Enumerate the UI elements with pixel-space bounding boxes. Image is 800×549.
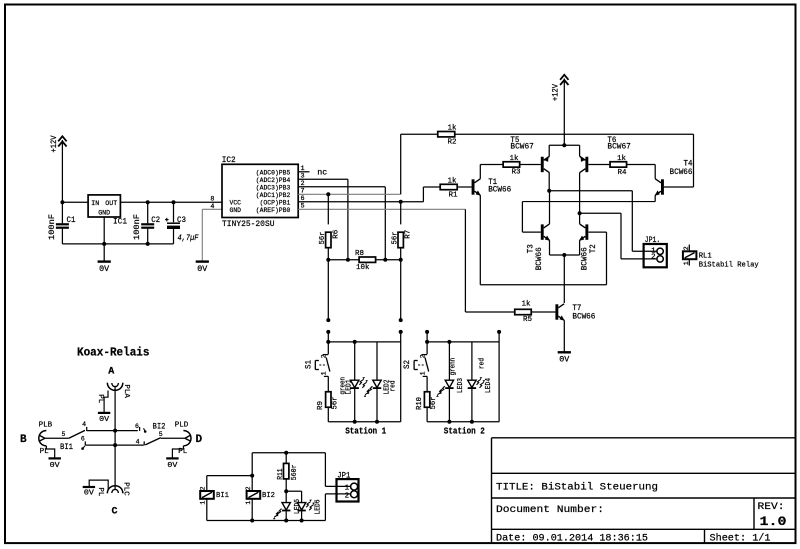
ground 0V at PLD (166, 457, 178, 459)
wire stub down from R6 node (327, 260, 329, 320)
junction center row1 (113, 429, 117, 433)
resistor R10 56r (426, 376, 428, 392)
switch BI2 blade (145, 438, 161, 445)
resistor R5 1k (515, 309, 532, 314)
junction bottom LED1 (353, 420, 357, 424)
wire row1 B-4 to center (87, 430, 115, 432)
capacitor C2 (147, 202, 149, 223)
ground 0V at PLA (98, 412, 110, 414)
wire T3 collector up (549, 191, 551, 224)
junction bottom LED5 (284, 519, 288, 523)
svg-text:1: 1 (245, 501, 252, 505)
svg-text:IC1: IC1 (113, 216, 127, 226)
transistor T4 BCW66 (661, 179, 664, 194)
wire +12V to IC1 IN (61, 140, 63, 202)
PLA shield to ground (104, 391, 108, 413)
wire rail to BI2 coil (251, 453, 253, 491)
wire center column to C (114, 431, 116, 446)
LED6 branch (286, 490, 301, 492)
svg-text:0V: 0V (50, 462, 61, 470)
junction LED column top (447, 340, 451, 344)
wire PB4 pin3 net (298, 178, 348, 180)
svg-text:2: 2 (245, 486, 252, 490)
svg-text:R7: R7 (405, 230, 413, 239)
ground 0V at PLB (49, 457, 61, 459)
wire coil top rail (252, 452, 325, 454)
svg-text:0V: 0V (99, 265, 109, 274)
resistor R6 56r (327, 194, 329, 224)
transistor T5 BCW67 (548, 145, 550, 156)
wire station bottom rail (427, 421, 499, 423)
svg-text:PL: PL (96, 394, 104, 403)
svg-text:100nF: 100nF (133, 214, 142, 240)
svg-text:R6: R6 (332, 229, 340, 238)
PLB shield to ground (46, 446, 54, 459)
svg-text:B: B (20, 434, 27, 446)
resistor R7 56r (400, 202, 402, 225)
BI1 terminal 4 tick (86, 427, 88, 431)
wire station2 right return riser (498, 332, 500, 422)
svg-text:grenn: grenn (450, 358, 458, 376)
svg-text:2: 2 (200, 486, 207, 490)
wire station bottom rail (328, 421, 400, 423)
svg-text:IC2: IC2 (222, 155, 236, 165)
svg-text:5: 5 (61, 431, 65, 438)
wire row2 center (85, 444, 115, 446)
svg-text:S2: S2 (403, 360, 412, 369)
wire B to BI1 blade (45, 437, 69, 439)
svg-text:C1: C1 (67, 216, 76, 225)
svg-text:nc: nc (317, 169, 327, 178)
junction bottom LED2 (375, 420, 379, 424)
svg-text:1.0: 1.0 (760, 514, 787, 529)
transistor T6 BCW67 (579, 145, 581, 156)
wire station top rail (328, 341, 400, 343)
wire feed stub S2 (425, 330, 429, 334)
wire IC2 GND to ground (202, 208, 222, 210)
svg-text:6: 6 (81, 435, 85, 442)
svg-text:1k: 1k (509, 155, 519, 163)
wire T1 emitter loop to T2 base (479, 195, 481, 285)
wire T3 base loop (521, 202, 523, 233)
svg-text:C: C (112, 507, 118, 518)
transistor T2 BCW66 (585, 224, 588, 239)
svg-text:0V: 0V (84, 490, 95, 498)
svg-text:R3: R3 (511, 168, 521, 176)
svg-text:REV:: REV: (758, 502, 785, 513)
wire H-bridge bottom rail (549, 240, 551, 255)
junction C3 top (172, 200, 176, 204)
svg-text:1: 1 (345, 484, 350, 492)
svg-text:LED6: LED6 (314, 500, 322, 515)
svg-text:S1: S1 (304, 360, 313, 369)
svg-text:10k: 10k (356, 264, 370, 272)
svg-text:2: 2 (651, 254, 656, 262)
svg-text:6: 6 (135, 423, 139, 430)
wire T1 collector to R3 (479, 164, 481, 178)
coax connector PLA (107, 383, 123, 391)
wire R8 row (328, 259, 359, 261)
svg-text:56r: 56r (391, 232, 399, 245)
svg-text:Station 2: Station 2 (444, 426, 485, 436)
svg-text:LED4: LED4 (485, 378, 493, 393)
wire stub down from R7 node (400, 260, 402, 320)
svg-text:R4: R4 (617, 169, 627, 177)
wire PB1 pin6 net (298, 201, 423, 203)
coax connector PLC (107, 486, 123, 494)
junction C2 bottom (146, 242, 150, 246)
transistor T3 BCW66 (541, 224, 544, 239)
RL1 pin 1 stub (688, 259, 690, 265)
svg-text:A: A (108, 367, 114, 378)
svg-text:RL1: RL1 (699, 252, 712, 260)
svg-text:Date: 09.01.2014 18:36:15: Date: 09.01.2014 18:36:15 (496, 533, 648, 545)
PLC shield to ground (89, 480, 108, 490)
svg-text:1k: 1k (447, 124, 457, 132)
svg-text:2: 2 (683, 246, 690, 250)
IC2 pin 1 stub nc (298, 171, 309, 173)
svg-text:0V: 0V (197, 265, 207, 274)
wire T2 collector up (579, 213, 581, 224)
wire PB0 pin5 net (298, 208, 465, 210)
wire T5 collector down (548, 173, 550, 191)
wire T7 emitter to ground (563, 320, 565, 352)
svg-text:R5: R5 (523, 316, 533, 324)
svg-text:LED1: LED1 (346, 380, 354, 395)
transistor T7 BCW66 (555, 304, 558, 319)
wire IC1 OUT to IC2 VCC (120, 201, 222, 203)
LED column 1 (448, 342, 450, 380)
svg-text:red: red (479, 358, 487, 369)
junction R6 top (326, 192, 330, 196)
ground 0V below IC2 GND (196, 260, 209, 262)
wire bottom rail to JP1 pin2 (324, 494, 326, 521)
RL1 pin 2 stub (688, 245, 690, 252)
junction center row2 (113, 443, 117, 447)
wire PB2 pin7 net (298, 193, 401, 195)
svg-text:BCW66: BCW66 (670, 168, 693, 177)
svg-text:56r: 56r (319, 232, 327, 245)
wire Qbar node to JP1 pin2 (580, 212, 621, 214)
svg-text:0V: 0V (167, 462, 178, 470)
junction bottom LED6 (300, 519, 304, 523)
wire feed stub S1 (326, 330, 330, 334)
svg-text:PLD: PLD (175, 421, 189, 429)
junction S2 top (425, 340, 429, 344)
svg-text:JP1: JP1 (337, 471, 350, 480)
svg-text:R2: R2 (447, 138, 456, 146)
svg-text:PLA: PLA (122, 384, 130, 398)
svg-text:R8: R8 (355, 250, 364, 258)
PLD shield to ground (172, 446, 183, 459)
svg-text:1k: 1k (617, 155, 627, 163)
wire IC1 GND drop (103, 217, 105, 262)
svg-text:BI1: BI1 (216, 492, 229, 500)
svg-text:R9: R9 (317, 401, 325, 410)
svg-text:R10: R10 (416, 397, 424, 410)
svg-text:1: 1 (419, 371, 426, 375)
svg-text:Station 1: Station 1 (345, 426, 387, 436)
transistor T1 BCW66 (472, 179, 475, 194)
junction bottom LED2 (470, 420, 474, 424)
junction +12V/C1 (60, 200, 64, 204)
svg-text:1: 1 (683, 261, 690, 265)
svg-text:1k: 1k (521, 300, 531, 308)
svg-text:C2: C2 (151, 216, 160, 225)
svg-text:560r: 560r (291, 464, 299, 480)
svg-text:OUT: OUT (105, 200, 117, 208)
wire station1 right return riser (400, 332, 402, 422)
ground 0V at PLC (83, 486, 95, 488)
switch BI1 blade (69, 430, 85, 438)
junction S1 top (326, 340, 330, 344)
svg-text:4,7µF: 4,7µF (178, 234, 199, 243)
svg-text:+12V: +12V (50, 135, 59, 152)
capacitor C3 polarized (173, 202, 175, 222)
svg-text:56r: 56r (430, 397, 438, 410)
wire pin7 to R2 riser (400, 134, 402, 194)
svg-text:Sheet: 1/1: Sheet: 1/1 (710, 533, 771, 545)
svg-text:(AREF)PB0: (AREF)PB0 (256, 207, 291, 215)
svg-text:BI1: BI1 (60, 443, 73, 452)
svg-text:PLB: PLB (39, 421, 53, 429)
connector JP1 bottom (337, 479, 359, 501)
svg-text:+12V: +12V (552, 84, 561, 101)
BI2 open stub (144, 428, 146, 431)
wire coil bottom rail (207, 520, 326, 522)
wire bottom rail to T7 collector (563, 255, 565, 303)
svg-text:100nF: 100nF (48, 214, 57, 240)
resistor R11 560r (285, 453, 287, 464)
microcontroller IC2 (222, 164, 298, 217)
wire PB3 pin2 net (298, 186, 385, 188)
BI2 terminal 6 tick (139, 427, 141, 431)
supply symbol +12V left (58, 136, 66, 141)
resistor R3 1k (503, 162, 520, 167)
svg-text:1: 1 (200, 501, 207, 505)
wire H-bridge top rail (549, 144, 579, 146)
svg-text:56r: 56r (331, 397, 339, 410)
wire row1 center to BI2 term6 (115, 430, 138, 432)
title block REV divider (753, 498, 755, 529)
junction top rail +12V (562, 143, 566, 147)
junction IC1 GND rail (102, 242, 106, 246)
svg-text:BiStabil Relay: BiStabil Relay (699, 261, 759, 269)
resistor R1 1k (440, 184, 457, 189)
junction R7 top (399, 200, 403, 204)
svg-text:JP1.: JP1. (645, 236, 661, 245)
wire row2 center to BI2 term4 (115, 444, 144, 446)
junction bottom LED1 (447, 420, 451, 424)
wire blade to D (161, 437, 185, 439)
svg-text:4: 4 (82, 421, 86, 428)
relay RL1 coil (683, 251, 697, 259)
resistor R2 1k (401, 133, 438, 135)
svg-text:PLC: PLC (121, 482, 129, 496)
svg-text:BCW67: BCW67 (607, 142, 631, 151)
supply symbol +12V right (560, 75, 568, 80)
junction C2 top (146, 200, 150, 204)
coax connector PLD (183, 431, 191, 446)
switch S2 (426, 342, 428, 354)
title block outline (492, 438, 795, 543)
coax connector PLB (39, 431, 47, 446)
svg-text:BCW66: BCW66 (572, 313, 595, 322)
ground 0V below IC1 (98, 260, 111, 262)
svg-text:IN: IN (91, 200, 99, 208)
svg-text:4: 4 (136, 439, 140, 446)
svg-text:5: 5 (159, 431, 163, 438)
voltage regulator IC1 (88, 195, 120, 217)
junction BI1 branch (250, 474, 254, 478)
junction T5/T3 collectors Q node (547, 189, 551, 193)
svg-text:R11: R11 (277, 468, 285, 479)
svg-text:GND: GND (230, 207, 242, 215)
svg-text:0V: 0V (99, 416, 110, 424)
node stub end dot right (399, 318, 403, 322)
capacitor C1 (61, 202, 63, 223)
svg-text:Koax-Relais: Koax-Relais (77, 346, 150, 359)
junction T6/T2 collectors Qbar node (578, 211, 582, 215)
svg-text:BI2: BI2 (262, 492, 275, 500)
junction pin2 at R8 (383, 258, 387, 262)
junction pin3 at R8 (346, 258, 350, 262)
svg-text:T2: T2 (589, 244, 598, 253)
svg-text:Document Number:: Document Number: (496, 504, 604, 516)
junction R8 row right (399, 258, 403, 262)
svg-text:TINY25-20SU: TINY25-20SU (222, 219, 275, 229)
wire R4 to T4 collector (627, 163, 655, 165)
LED column 2 (471, 342, 473, 380)
wire T4 emitter to T3 base line (654, 195, 656, 201)
svg-text:BCW66: BCW66 (488, 186, 511, 195)
wire A to C center column (114, 386, 116, 430)
BI2 terminal 4 tick (143, 441, 145, 445)
LED column 2 (376, 342, 378, 380)
BI1 terminal 6 tick row2 (84, 441, 86, 445)
svg-text:1: 1 (321, 371, 328, 375)
svg-text:PL: PL (96, 487, 104, 496)
ground 0V below T7 (558, 351, 571, 353)
wire Q node to JP1 pin1 (549, 190, 632, 192)
relay coil BI1 (200, 491, 214, 499)
junction LED column top (353, 340, 357, 344)
wire capacitor ground rail (62, 243, 173, 245)
svg-text:GND: GND (98, 210, 110, 218)
svg-text:4: 4 (210, 203, 214, 211)
svg-text:R1: R1 (448, 191, 458, 199)
svg-text:1k: 1k (447, 177, 457, 185)
svg-text:BCW66: BCW66 (580, 247, 589, 270)
wire T6 collector down (579, 173, 581, 214)
svg-text:red: red (389, 381, 397, 392)
junction R8 row left (326, 258, 330, 262)
resistor R8 10k (359, 257, 376, 262)
connector JP1. top (644, 244, 667, 267)
wire top rail to JP1 pin1 (324, 453, 326, 487)
wire branch to BI1 coil (207, 475, 252, 477)
wire T4 collector riser (654, 164, 656, 178)
svg-text:TITLE: BiStabil Steuerung: TITLE: BiStabil Steuerung (496, 482, 658, 494)
junction bottom BI2 (250, 519, 254, 523)
LED5 green indicator (285, 491, 287, 502)
svg-text:BCW67: BCW67 (510, 142, 534, 151)
junction LED5/LED6 split (284, 489, 288, 493)
BI2 coil bottom stub (251, 499, 253, 521)
svg-text:2: 2 (345, 492, 350, 500)
wire station top rail (427, 341, 499, 343)
node stub end dot left (326, 318, 330, 322)
junction R11 top (284, 451, 288, 455)
svg-text:LED5: LED5 (294, 499, 302, 514)
BI1 coil bottom stub (206, 499, 208, 521)
resistor R4 1k (588, 163, 610, 165)
svg-text:BCW66: BCW66 (535, 247, 544, 270)
junction bottom rail (562, 253, 566, 257)
relay coil BI2 (247, 491, 261, 499)
title block Sheet divider (704, 529, 706, 543)
resistor R9 56r (327, 376, 329, 392)
svg-text:LED3: LED3 (457, 378, 465, 393)
switch S1 (327, 342, 329, 354)
BI1 open stub (83, 446, 85, 448)
svg-text:0V: 0V (559, 356, 569, 365)
svg-text:C3: C3 (177, 216, 186, 225)
svg-text:D: D (196, 434, 203, 446)
wire R2 to T4 base riser (455, 133, 694, 135)
LED column 1 (354, 342, 356, 380)
